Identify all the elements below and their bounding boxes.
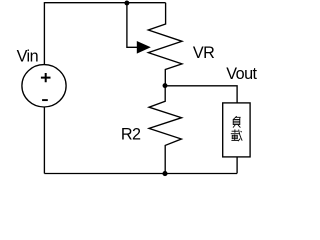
minus sign <box>42 99 48 101</box>
wire left rail upper <box>43 2 45 65</box>
label load char 1 (fu) <box>233 116 240 127</box>
svg-text:VR: VR <box>193 44 214 62</box>
wire left rail lower <box>43 107 45 174</box>
plus sign <box>41 73 51 82</box>
svg-text:R2: R2 <box>121 125 141 143</box>
wire load bottom <box>236 157 238 174</box>
wire wiper drop <box>127 3 138 47</box>
svg-text:Vin: Vin <box>17 48 38 66</box>
node junction dot top <box>124 1 129 6</box>
wire top rail <box>44 2 165 4</box>
svg-text:Vout: Vout <box>226 65 257 83</box>
wire Vout to load <box>165 86 237 103</box>
node junction dot mid (Vout node) <box>163 83 168 88</box>
load box <box>223 103 250 157</box>
label load char 2 (zai) <box>231 129 242 141</box>
resistor VR <box>148 3 182 86</box>
wiper arrowhead <box>137 41 151 54</box>
wire bottom rail <box>44 173 237 175</box>
node junction dot bottom <box>162 171 167 176</box>
resistor R2 <box>149 86 182 174</box>
voltage source V1 circle <box>22 65 66 107</box>
